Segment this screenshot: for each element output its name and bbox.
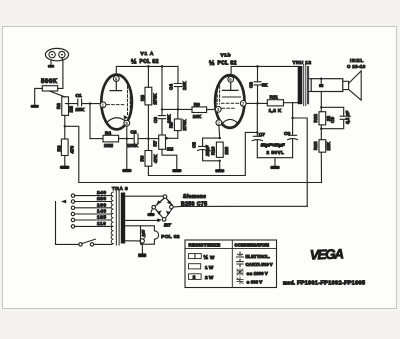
- svg-text:50µF+50µF: 50µF+50µF: [261, 143, 285, 148]
- V1b anode arc: [221, 119, 238, 124]
- svg-text:½: ½: [209, 59, 215, 67]
- heater PCL82: [141, 226, 159, 244]
- svg-text:C5: C5: [191, 142, 196, 148]
- wire anode bus A: [116, 66, 178, 75]
- svg-text:25K: 25K: [76, 107, 85, 113]
- potentiometer 500K: [42, 86, 57, 91]
- pin 1: [100, 102, 106, 108]
- svg-text:10K: 10K: [166, 114, 171, 123]
- svg-text:22: 22: [326, 115, 331, 121]
- resistor R13: [319, 140, 326, 153]
- svg-text:R5: R5: [140, 95, 145, 101]
- svg-text:15K: 15K: [326, 141, 331, 150]
- ground R7: [172, 169, 181, 172]
- TRU secondary: [307, 66, 309, 104]
- V1a grid dashes: [107, 104, 126, 106]
- svg-text:125: 125: [97, 215, 107, 221]
- svg-text:INT: INT: [164, 223, 171, 228]
- legend cap 1000V: [237, 269, 243, 276]
- wire HT winding bottom to bridge: [125, 219, 157, 221]
- speaker IREL frame: [311, 79, 343, 92]
- wire pot wiper to R2: [50, 91, 65, 97]
- pin 3: [215, 106, 221, 112]
- resistor R11 1.2K: [267, 100, 283, 106]
- svg-text:R4: R4: [105, 131, 111, 136]
- capacitor C6 5K: [254, 66, 261, 103]
- wire heater top: [125, 225, 140, 227]
- wire heater bottom: [125, 240, 140, 242]
- V1b grid dashes: [217, 86, 219, 104]
- svg-text:220: 220: [97, 196, 107, 202]
- output transformer TRU primary: [298, 66, 303, 104]
- V1a anode arc: [107, 118, 127, 123]
- svg-text:0,1 µF: 0,1 µF: [345, 111, 350, 124]
- svg-text:C6: C6: [249, 82, 254, 88]
- svg-text:10K: 10K: [193, 114, 202, 119]
- svg-text:TRU 12: TRU 12: [293, 60, 312, 66]
- wire C7 C8 bottom: [257, 158, 292, 166]
- capacitor C7 branch: [252, 103, 262, 157]
- wire secondary to speaker: [309, 79, 311, 92]
- svg-text:470: 470: [70, 145, 75, 153]
- svg-text:CONDENSATORI: CONDENSATORI: [235, 242, 269, 247]
- svg-text:270K: 270K: [153, 93, 158, 105]
- bridge corner terminals: [163, 195, 167, 199]
- wire pot left: [35, 88, 43, 104]
- svg-text:TRA 9: TRA 9: [112, 186, 128, 192]
- wire ground bus: [79, 182, 322, 184]
- capacitor C4 10K: [174, 66, 181, 109]
- svg-text:R11: R11: [270, 94, 279, 99]
- svg-text:R13: R13: [313, 141, 318, 150]
- svg-text:C1: C1: [76, 93, 82, 99]
- svg-text:140: 140: [97, 209, 107, 215]
- ground under V1a: [122, 169, 131, 172]
- ground heater: [138, 253, 146, 257]
- terminal circle heater: [140, 239, 144, 243]
- wire pin2 down: [218, 126, 221, 139]
- wire switch to primary: [94, 243, 112, 245]
- V1a anode arrow: [124, 115, 128, 120]
- wire C3 chain from bus: [161, 66, 163, 115]
- mains tap 240: [71, 194, 74, 197]
- ground pot: [31, 105, 39, 108]
- svg-text:2: 2: [193, 275, 196, 280]
- svg-text:mod.: mod.: [283, 281, 296, 287]
- V1a cathode: [110, 82, 122, 91]
- speaker magnet: [320, 79, 322, 84]
- ground C7 C8: [270, 166, 279, 169]
- svg-text:10M: 10M: [104, 143, 113, 148]
- mains tap 160: [71, 206, 74, 209]
- legend cap 600V: [237, 277, 243, 284]
- svg-text:Siemens: Siemens: [183, 194, 206, 200]
- svg-text:110: 110: [97, 221, 106, 227]
- wire B+ riser: [293, 118, 308, 206]
- svg-text:∗ 600 V: ∗ 600 V: [247, 280, 263, 285]
- resistor R9 10K: [191, 108, 193, 110]
- svg-text:C4: C4: [169, 84, 174, 90]
- resistor R10 220: [216, 142, 223, 157]
- wire C2 to R7: [148, 138, 158, 140]
- capacitor C3: [158, 116, 165, 135]
- svg-text:2 50VL: 2 50VL: [267, 150, 285, 155]
- wire R12 to R13: [320, 125, 322, 140]
- svg-text:V1 A: V1 A: [141, 51, 155, 57]
- svg-text:R3: R3: [56, 145, 61, 151]
- svg-text:1M: 1M: [68, 106, 73, 113]
- wire anode bus B: [231, 66, 300, 75]
- svg-text:R12: R12: [313, 114, 318, 123]
- capacitor C5 25uF: [198, 138, 220, 161]
- svg-text:PCL 82: PCL 82: [218, 61, 237, 67]
- rectifier bridge Siemens B250C75: [155, 198, 173, 218]
- svg-text:R6: R6: [139, 155, 144, 161]
- svg-text:2 W: 2 W: [205, 275, 214, 280]
- svg-text:160: 160: [97, 202, 107, 208]
- svg-text:C3: C3: [153, 117, 158, 123]
- mains tap 125: [71, 218, 74, 221]
- legend cap carta: [237, 259, 243, 266]
- resistor R4 10M: [90, 138, 103, 140]
- svg-text:500K: 500K: [41, 79, 58, 85]
- wire speaker down: [320, 92, 322, 112]
- wire grid row V1a: [89, 104, 91, 139]
- wire junction to ground bus riser: [65, 126, 79, 182]
- svg-text:CARTA 500 V: CARTA 500 V: [246, 262, 273, 267]
- svg-text:1M: 1M: [167, 147, 174, 152]
- wire jack to pot: [58, 58, 63, 89]
- svg-text:C7: C7: [259, 132, 265, 138]
- svg-text:ELETTROL.: ELETTROL.: [246, 254, 270, 259]
- svg-text:C 10-16: C 10-16: [347, 64, 366, 69]
- TRA9 secondary winding bar: [121, 193, 125, 244]
- legend resistor 2 W: [189, 274, 202, 280]
- capacitor C1 25K: [66, 99, 100, 106]
- legend resistor 1 W: [189, 264, 201, 269]
- wire R12 C9 loop: [321, 107, 343, 128]
- resistor R3: [61, 139, 68, 156]
- legend resistor half W: [189, 254, 195, 259]
- wire R6 loop to C7: [148, 132, 257, 175]
- svg-text:½: ½: [204, 254, 209, 261]
- pin 8: [124, 120, 130, 126]
- svg-text:1 W: 1 W: [205, 265, 214, 270]
- wire jack shield stub: [50, 61, 52, 65]
- capacitor C2 100K: [119, 134, 149, 143]
- svg-text:R2: R2: [56, 103, 61, 109]
- resistor R8: [177, 109, 179, 138]
- legend table frame: [185, 240, 277, 288]
- svg-text:1,2 K: 1,2 K: [269, 108, 282, 113]
- svg-text:W: W: [210, 255, 215, 260]
- svg-text:240: 240: [97, 190, 107, 196]
- potentiometer R7 1M: [159, 135, 166, 149]
- mains tap 110: [71, 225, 74, 228]
- pin 7: [240, 101, 246, 107]
- capacitor C9: [340, 116, 347, 119]
- mains tap 140: [71, 212, 74, 215]
- wire R7 to ground: [162, 149, 177, 168]
- R7 wiper arrow: [169, 137, 177, 139]
- pin 6: [228, 76, 234, 82]
- svg-text:6,3V: 6,3V: [141, 229, 145, 236]
- svg-text:VEGA: VEGA: [310, 246, 345, 262]
- wire R10 ground: [219, 161, 221, 169]
- svg-text:PCL 82: PCL 82: [140, 59, 159, 65]
- svg-text:10K: 10K: [182, 81, 187, 90]
- svg-text:270K: 270K: [182, 119, 187, 131]
- switch mains: [79, 243, 82, 246]
- INT arrowhead: [157, 218, 162, 222]
- tube V1a envelope: [101, 75, 132, 130]
- svg-text:R10: R10: [211, 146, 216, 155]
- svg-text:R7: R7: [152, 140, 157, 146]
- V1b cathode: [223, 82, 239, 90]
- mains tap 220: [71, 200, 74, 203]
- svg-text:∗∗ 1000 V: ∗∗ 1000 V: [247, 271, 268, 276]
- resistor R2: [62, 97, 69, 116]
- svg-text:C8: C8: [284, 131, 290, 137]
- svg-text:C2: C2: [131, 129, 137, 134]
- wire mains left: [56, 202, 79, 245]
- wire pin7 to R11: [246, 102, 267, 104]
- ground R3: [60, 166, 70, 169]
- resistor R6: [147, 139, 149, 176]
- input jack PU: [45, 48, 68, 60]
- speaker cone: [349, 71, 362, 100]
- capacitor C8 branch: [288, 103, 298, 158]
- mains selector arrow: [61, 200, 66, 204]
- svg-text:5K: 5K: [262, 82, 269, 87]
- svg-text:R9: R9: [194, 102, 200, 107]
- pin 2: [216, 120, 222, 126]
- bridge diodes: [157, 200, 162, 204]
- wire grid2 row: [162, 108, 192, 110]
- svg-text:FP1001-FP1002-FP1005: FP1001-FP1002-FP1005: [297, 281, 365, 287]
- svg-text:V1b: V1b: [221, 53, 232, 59]
- TRU core: [304, 65, 306, 106]
- wire R9 to pin3: [207, 108, 216, 110]
- resistor R5: [147, 66, 149, 138]
- ground jack: [48, 65, 55, 68]
- TRA9 core: [116, 191, 119, 246]
- tube V1b envelope: [215, 75, 244, 128]
- wire bridge plus to B+ riser: [173, 205, 307, 208]
- ground bridge minus: [151, 209, 153, 213]
- power transformer TRA9 primary winding: [111, 192, 113, 244]
- legend cap elettrol: [237, 252, 244, 257]
- resistor R12: [319, 112, 326, 125]
- svg-text:R8: R8: [169, 122, 174, 128]
- svg-text:RESISTENZE: RESISTENZE: [189, 243, 221, 248]
- svg-text:PCL 82: PCL 82: [161, 234, 180, 240]
- wire pin8 down: [126, 126, 128, 169]
- wire heater to ground: [141, 243, 143, 253]
- svg-text:47K: 47K: [153, 154, 158, 163]
- speaker voice coil: [343, 81, 349, 89]
- wire R13 to ground bus: [320, 152, 322, 182]
- svg-text:220: 220: [224, 146, 229, 154]
- pin 9: [113, 76, 119, 82]
- wire R2 to junction: [64, 115, 66, 139]
- wire R3 to ground: [64, 156, 66, 166]
- svg-text:½: ½: [131, 58, 137, 66]
- wire R11 to TRU primary: [284, 102, 301, 104]
- ground R10: [215, 169, 224, 172]
- svg-text:100K: 100K: [127, 143, 139, 148]
- wire HT winding to bridge top: [125, 195, 163, 197]
- svg-text:25µF: 25µF: [205, 145, 210, 157]
